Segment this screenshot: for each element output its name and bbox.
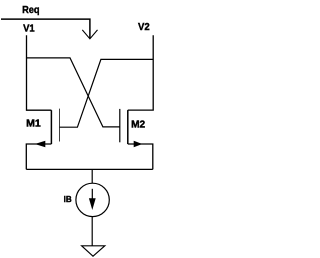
svg-text:V1: V1 xyxy=(23,23,35,34)
svg-text:IB: IB xyxy=(64,194,72,204)
svg-text:Req: Req xyxy=(22,4,39,16)
svg-text:M1: M1 xyxy=(26,119,41,130)
svg-text:M2: M2 xyxy=(131,119,146,130)
svg-text:V2: V2 xyxy=(138,22,150,33)
